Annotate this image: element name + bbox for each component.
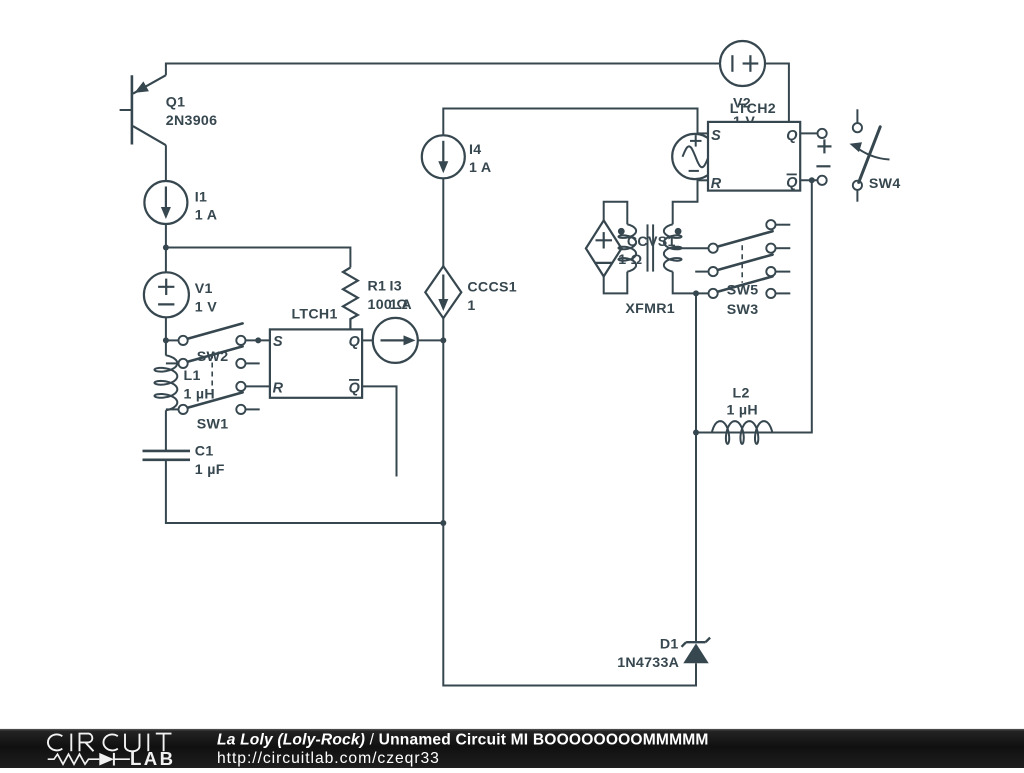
wire Q1 collector to I1 — [165, 145, 167, 181]
svg-text:R: R — [273, 381, 284, 397]
voltage source V1 — [144, 272, 189, 317]
wire I4 bottom to CCCS1 — [442, 179, 444, 266]
svg-text:Q: Q — [349, 334, 361, 350]
resistor R1 — [343, 268, 358, 330]
svg-text:LAB: LAB — [130, 748, 175, 768]
svg-text:Q: Q — [349, 381, 361, 397]
svg-text:1 A: 1 A — [390, 297, 412, 313]
svg-text:Q: Q — [786, 128, 798, 144]
inductor L2 — [712, 421, 772, 444]
switch SW4 — [853, 123, 862, 132]
svg-text:LTCH1: LTCH1 — [292, 307, 338, 323]
svg-text:LTCH2: LTCH2 — [730, 101, 776, 117]
svg-text:V1: V1 — [195, 281, 213, 297]
inductor L1 — [155, 355, 178, 410]
wire SW2 common stub — [166, 339, 179, 341]
CircuitLab logo — [48, 734, 62, 750]
svg-text:XFMR1: XFMR1 — [625, 301, 675, 317]
footer bar — [0, 729, 1024, 768]
wire LTCH1 Qbar dangling — [362, 386, 396, 476]
zener diode D1 1N4733A — [686, 641, 705, 643]
svg-text:S: S — [273, 334, 283, 350]
wire C1 to bottom rail — [166, 461, 443, 523]
svg-text:R1: R1 — [368, 279, 387, 295]
wire I1 to junction — [165, 224, 167, 248]
svg-text:1 µF: 1 µF — [195, 462, 225, 478]
XFMR1 core — [647, 224, 649, 271]
wire D1 to XFMR bottom node (through L2 node) — [695, 293, 697, 642]
wire V1 to SW2 node — [165, 317, 167, 340]
wire SW2 throw2 stub — [246, 362, 260, 364]
svg-text:L2: L2 — [733, 385, 750, 401]
transistor Q1 2N3906 — [131, 75, 134, 144]
svg-text:1: 1 — [467, 298, 475, 314]
wire mid vertical CCCS1 to bottom rail — [442, 318, 444, 523]
svg-text:CCCS1: CCCS1 — [467, 280, 517, 296]
dependent source CCVS1 — [586, 220, 622, 276]
wire CCVS1 bottom link to primary — [604, 272, 628, 294]
svg-text:I4: I4 — [469, 142, 481, 158]
wire SW2 throw to LTCH1 S — [246, 339, 270, 341]
svg-text:2N3906: 2N3906 — [166, 113, 218, 129]
switch contact circles left cluster — [236, 336, 245, 345]
svg-text:1 A: 1 A — [195, 208, 217, 224]
svg-text:SW4: SW4 — [869, 176, 901, 192]
wire L1 bottom to C1 — [165, 410, 167, 450]
wire I3 out to mid junction — [418, 339, 444, 341]
svg-text:1 V: 1 V — [195, 300, 217, 316]
wire SW4 stubs — [856, 109, 858, 123]
wire node to L1 top — [165, 340, 167, 355]
current source I1 — [144, 181, 187, 224]
wire top rail from Q1 emitter to V2 — [166, 64, 720, 76]
dependent source CCCS1 — [425, 266, 461, 318]
port + / - right of LTCH2 — [818, 129, 827, 138]
svg-text:I3: I3 — [390, 279, 402, 295]
switch contact circles right cluster — [766, 220, 775, 229]
svg-text:SW3: SW3 — [727, 302, 759, 318]
switch SW3 (DPDT) — [717, 255, 773, 271]
source V3 (sine, behind LTCH2) — [672, 134, 717, 179]
wire CCVS1 top link to primary — [604, 202, 628, 225]
transformer XFMR1 — [619, 224, 637, 271]
capacitor C1 — [143, 450, 191, 453]
svg-text:C1: C1 — [195, 443, 214, 459]
svg-text:SW1: SW1 — [197, 417, 229, 433]
wire junction to V1 — [165, 248, 167, 273]
svg-text:1 µH: 1 µH — [184, 386, 215, 402]
switch SW2 — [187, 323, 243, 339]
wire SW1 throw to LTCH1 R — [246, 385, 270, 387]
svg-text:S: S — [711, 128, 721, 144]
wire bottom rail to D1 — [443, 523, 696, 686]
wire LTCH2 Q to port + — [800, 132, 817, 134]
svg-text:1 A: 1 A — [469, 160, 491, 176]
latch LTCH2 — [708, 122, 800, 191]
XFMR1 phase dots — [618, 228, 625, 235]
wire LTCH1 Q to I3 — [362, 339, 373, 341]
svg-text:Q1: Q1 — [166, 95, 186, 111]
voltage source V2 (battery) — [720, 41, 765, 86]
wire V2 right to LTCH2 top — [765, 64, 789, 122]
svg-text:Q: Q — [786, 175, 798, 191]
wire SW1 common stubs — [166, 362, 179, 364]
svg-text:I1: I1 — [195, 189, 207, 205]
svg-text:La Loly (Loly-Rock) / Unnamed: La Loly (Loly-Rock) / Unnamed Circuit MI… — [217, 732, 709, 749]
wire V3 bottom to XFMR secondary top — [673, 178, 698, 224]
current source I4 — [422, 135, 465, 178]
wire SW5/SW3 throw stubs — [776, 224, 791, 226]
switch SW5 — [717, 231, 773, 247]
junction dots — [163, 245, 169, 251]
svg-text:R: R — [711, 176, 722, 192]
svg-text:http://circuitlab.com/czeqr33: http://circuitlab.com/czeqr33 — [217, 750, 440, 767]
wire LTCH2 Qbar to port - and down to L2 — [800, 179, 817, 181]
wire I4 top rail to V3/S node — [443, 109, 697, 179]
wire SW1 throw2 stub — [246, 408, 260, 410]
wire LTCH2 R stub — [698, 179, 709, 181]
svg-text:L1: L1 — [184, 368, 201, 384]
svg-text:D1: D1 — [660, 636, 679, 652]
wire junction to R1 top — [166, 248, 351, 268]
svg-text:1N4733A: 1N4733A — [617, 655, 679, 671]
wire SW3 upper common stub — [695, 271, 708, 273]
switch SW1 (DPDT) — [187, 346, 243, 362]
wire XFMR secondary bottom to SW3 common — [673, 272, 709, 294]
wire LTCH2 S stub — [698, 132, 709, 134]
svg-text:1 µH: 1 µH — [727, 402, 758, 418]
wire XFMR secondary center tap to SW5 — [673, 247, 709, 249]
